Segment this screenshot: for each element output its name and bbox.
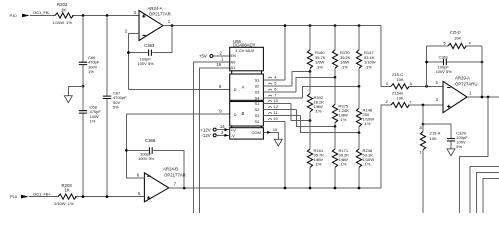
svg-text:5%: 5% <box>456 144 462 149</box>
node B-out row col1 <box>309 187 312 190</box>
resistor R171 <box>332 127 349 189</box>
svg-text:100V 5%: 100V 5% <box>138 156 155 161</box>
wire feedback left vertical <box>426 46 428 86</box>
svg-text:S3: S3 <box>255 113 261 118</box>
svg-text:AR24-A: AR24-A <box>148 6 163 11</box>
riser pin5 to node U1 <box>292 72 310 87</box>
svg-text:1K: 1K <box>61 7 66 12</box>
wire mux A S4 pin 7 <box>263 93 302 98</box>
svg-text:12: 12 <box>273 104 278 109</box>
capacitor C363 <box>138 43 155 66</box>
node output A feedback junction <box>171 24 174 27</box>
capacitor C361 <box>427 54 482 74</box>
wire op-amp B inverting input <box>126 114 144 178</box>
resistor R302 <box>307 72 324 121</box>
svg-text:13: 13 <box>273 98 278 103</box>
connector P10 (top) <box>10 13 30 18</box>
svg-text:C363: C363 <box>144 43 155 48</box>
wire Z15-B to op-amp non-inverting input <box>408 104 443 106</box>
node L1 <box>309 119 312 122</box>
wire down to Z15-A / C329 <box>422 105 424 124</box>
node feedback A left <box>127 51 130 54</box>
resistor R248 <box>356 133 374 188</box>
svg-text:.1%: .1% <box>365 64 372 69</box>
svg-text:.1%: .1% <box>340 162 347 167</box>
svg-text:P10: P10 <box>10 194 18 199</box>
svg-text:D: D <box>234 112 237 117</box>
wire mux B S4 pin 10 <box>263 116 285 121</box>
wire feedback A <box>128 26 172 53</box>
node L2 <box>334 125 337 128</box>
resistor R375 <box>332 77 349 126</box>
op-amp AR29-A OP727ARU <box>436 76 478 113</box>
wire op-amp A inverting input <box>128 34 139 90</box>
svg-text:10: 10 <box>273 116 278 121</box>
svg-text:EN: EN <box>231 53 237 58</box>
wire op-amp B output row <box>169 187 381 189</box>
node output B feedback junction <box>183 187 186 190</box>
svg-text:14: 14 <box>220 124 225 129</box>
svg-text:1%: 1% <box>90 119 96 124</box>
svg-text:S4: S4 <box>255 119 261 124</box>
node C66 column ground tap <box>82 85 85 88</box>
svg-text:S2: S2 <box>255 107 261 112</box>
riser pin11 to node L3 <box>301 116 360 133</box>
svg-text:B: B <box>242 111 245 116</box>
svg-text:1/10W .1%: 1/10W .1% <box>54 201 74 206</box>
svg-text:OP2177AR: OP2177AR <box>164 172 186 177</box>
node U2 <box>334 76 337 79</box>
capacitor C329 <box>423 124 468 149</box>
svg-text:10K: 10K <box>397 77 404 82</box>
node main row col1 <box>309 24 312 27</box>
node main row col3 <box>358 24 361 27</box>
wire mux B drain to op-amp B (pin 9) <box>126 113 229 115</box>
svg-text:.1%: .1% <box>315 162 322 167</box>
riser pin12 to node L2 <box>297 110 336 127</box>
wire mux B S2 pin 12 <box>263 104 296 109</box>
svg-text:AR29-A: AR29-A <box>455 76 470 81</box>
svg-text:A: A <box>242 85 245 90</box>
wire main row drop to Z15-C <box>381 26 391 87</box>
resistor Z15-B <box>386 90 413 107</box>
node feedback B left <box>125 149 128 152</box>
power -12V <box>202 130 230 138</box>
node output corner drop <box>487 96 490 99</box>
node junction on top row at C66 column <box>82 14 85 17</box>
node B-out row col3 <box>358 187 361 190</box>
svg-text:C366: C366 <box>145 138 156 143</box>
svg-text:Z15-D: Z15-D <box>450 30 461 35</box>
capacitor C66 <box>79 16 100 86</box>
svg-text:C361: C361 <box>439 54 449 59</box>
svg-text:S3: S3 <box>255 89 261 94</box>
svg-text:+5V: +5V <box>199 54 207 59</box>
node junction bottom row at C66 column <box>82 195 85 198</box>
svg-text:.1%: .1% <box>316 64 323 69</box>
node junction bottom row at C67 column <box>106 195 109 198</box>
wire mux A S1 pin 4 <box>263 75 285 80</box>
wire A1 address line <box>200 68 230 213</box>
svg-text:100V 5%: 100V 5% <box>436 69 453 74</box>
op-amp AR24-B OP2177AR <box>137 167 186 202</box>
svg-text:15: 15 <box>273 127 278 132</box>
svg-text:10K: 10K <box>430 136 437 141</box>
wire ground stub <box>68 86 83 96</box>
svg-text:Z15-A: Z15-A <box>430 131 441 136</box>
svg-text:S4: S4 <box>255 95 261 100</box>
svg-text:4 CH MUX: 4 CH MUX <box>235 48 254 53</box>
capacitor C366 <box>138 138 156 161</box>
svg-text:.1%: .1% <box>341 64 348 69</box>
wire Z15-C to op-amp inverting input <box>408 85 443 87</box>
svg-text:100V 5%: 100V 5% <box>138 61 155 66</box>
ground at COM <box>274 139 282 146</box>
resistor R147 <box>356 26 375 87</box>
ground (analog, open triangle) <box>64 96 72 103</box>
svg-text:S2: S2 <box>255 83 261 88</box>
node C361 left <box>425 61 428 64</box>
wire mux A drain to op-amp A (pin 8) <box>128 89 229 91</box>
connector P10 (bottom) <box>10 194 29 199</box>
wire op-amp A output row <box>163 25 381 27</box>
node L3 <box>358 131 361 134</box>
wire top input row <box>30 15 139 17</box>
wire right edge line 2 <box>470 166 499 213</box>
node U1 <box>309 70 312 73</box>
power +12V <box>201 124 230 132</box>
wire feedback B <box>126 150 184 188</box>
node output feedback tie <box>481 96 484 99</box>
svg-text:OC1_FB+: OC1_FB+ <box>33 191 52 196</box>
svg-text:+V: +V <box>231 127 236 132</box>
wire feedback right vertical <box>481 46 483 97</box>
node C361 right <box>481 61 484 64</box>
svg-text:S1: S1 <box>255 101 261 106</box>
svg-text:OC1_FB-: OC1_FB- <box>33 10 51 15</box>
svg-text:COM: COM <box>252 130 261 135</box>
svg-text:.1%: .1% <box>340 117 347 122</box>
wire mux B S3 pin 11 <box>263 110 300 115</box>
op-amp AR24-A OP2177AR <box>125 6 171 41</box>
riser pin4 to main output row <box>284 26 286 80</box>
svg-text:P10: P10 <box>10 13 18 18</box>
wire mux A S2 pin 5 <box>263 81 292 86</box>
svg-text:1/10W .1%: 1/10W .1% <box>53 20 73 25</box>
svg-text:.1%: .1% <box>364 162 371 167</box>
resistor Z15-D <box>427 30 482 49</box>
mux U55 DG409ADY <box>230 39 264 139</box>
wire B-out row rise to Z15-B <box>381 105 391 188</box>
node feedback left tie <box>425 85 428 88</box>
svg-text:OP2177AR: OP2177AR <box>149 11 171 16</box>
wire output drop corner <box>460 97 488 213</box>
svg-text:1%: 1% <box>88 69 94 74</box>
svg-text:+12V: +12V <box>201 127 211 132</box>
svg-text:AR24-B: AR24-B <box>163 167 178 172</box>
svg-text:10K: 10K <box>454 35 461 40</box>
node main row col2 <box>334 24 337 27</box>
wire mux B S1 pin 13 <box>263 98 291 103</box>
node Z15-A tap <box>422 104 425 107</box>
svg-text:5%: 5% <box>113 104 119 109</box>
capacitor C68 <box>79 86 102 196</box>
resistor R170 <box>332 26 350 78</box>
riser pin6 to node U2 <box>296 77 335 92</box>
svg-text:.1%: .1% <box>315 109 322 114</box>
resistor R161 <box>307 121 324 188</box>
svg-text:S1: S1 <box>255 77 261 82</box>
svg-text:A1: A1 <box>231 65 237 70</box>
resistor Z15-C <box>386 72 413 89</box>
resistor R160 <box>307 26 325 72</box>
node U3 <box>358 85 361 88</box>
wire right edge line 4 <box>483 179 499 214</box>
svg-text:A0: A0 <box>231 59 237 64</box>
node B-out row col2 <box>334 187 337 190</box>
resistor R148 <box>356 86 374 132</box>
riser pin7 to node U3 <box>303 86 360 98</box>
wire bottom input row <box>29 196 144 198</box>
riser pin13 to node L1 <box>291 104 310 121</box>
svg-text:16: 16 <box>217 62 222 67</box>
riser pin10 to op-amp B output row <box>284 122 286 189</box>
node C329 tap <box>422 123 425 126</box>
svg-text:-V: -V <box>231 133 235 138</box>
svg-text:R202: R202 <box>57 2 68 7</box>
wire mux A S3 pin 6 <box>263 87 296 92</box>
capacitor C67 <box>103 16 127 197</box>
resistor R203 <box>54 183 76 206</box>
wire mux COM pin 15 <box>263 127 278 139</box>
wire A0 address line <box>194 62 230 213</box>
wire op-amp AR29-A output row <box>467 96 499 98</box>
svg-text:-12V: -12V <box>202 133 211 138</box>
power +5V <box>199 50 230 58</box>
resistor Z15-A <box>420 124 441 213</box>
svg-text:OP727ARU: OP727ARU <box>455 81 477 86</box>
node junction on top row at C67 column <box>106 14 109 17</box>
svg-text:.1%: .1% <box>364 121 371 126</box>
svg-text:10K: 10K <box>397 95 404 100</box>
wire right edge line 3 <box>477 172 499 213</box>
svg-text:D: D <box>234 87 237 92</box>
resistor R202 <box>53 2 74 25</box>
svg-text:1K: 1K <box>65 187 70 192</box>
ground at C329 <box>447 149 455 156</box>
